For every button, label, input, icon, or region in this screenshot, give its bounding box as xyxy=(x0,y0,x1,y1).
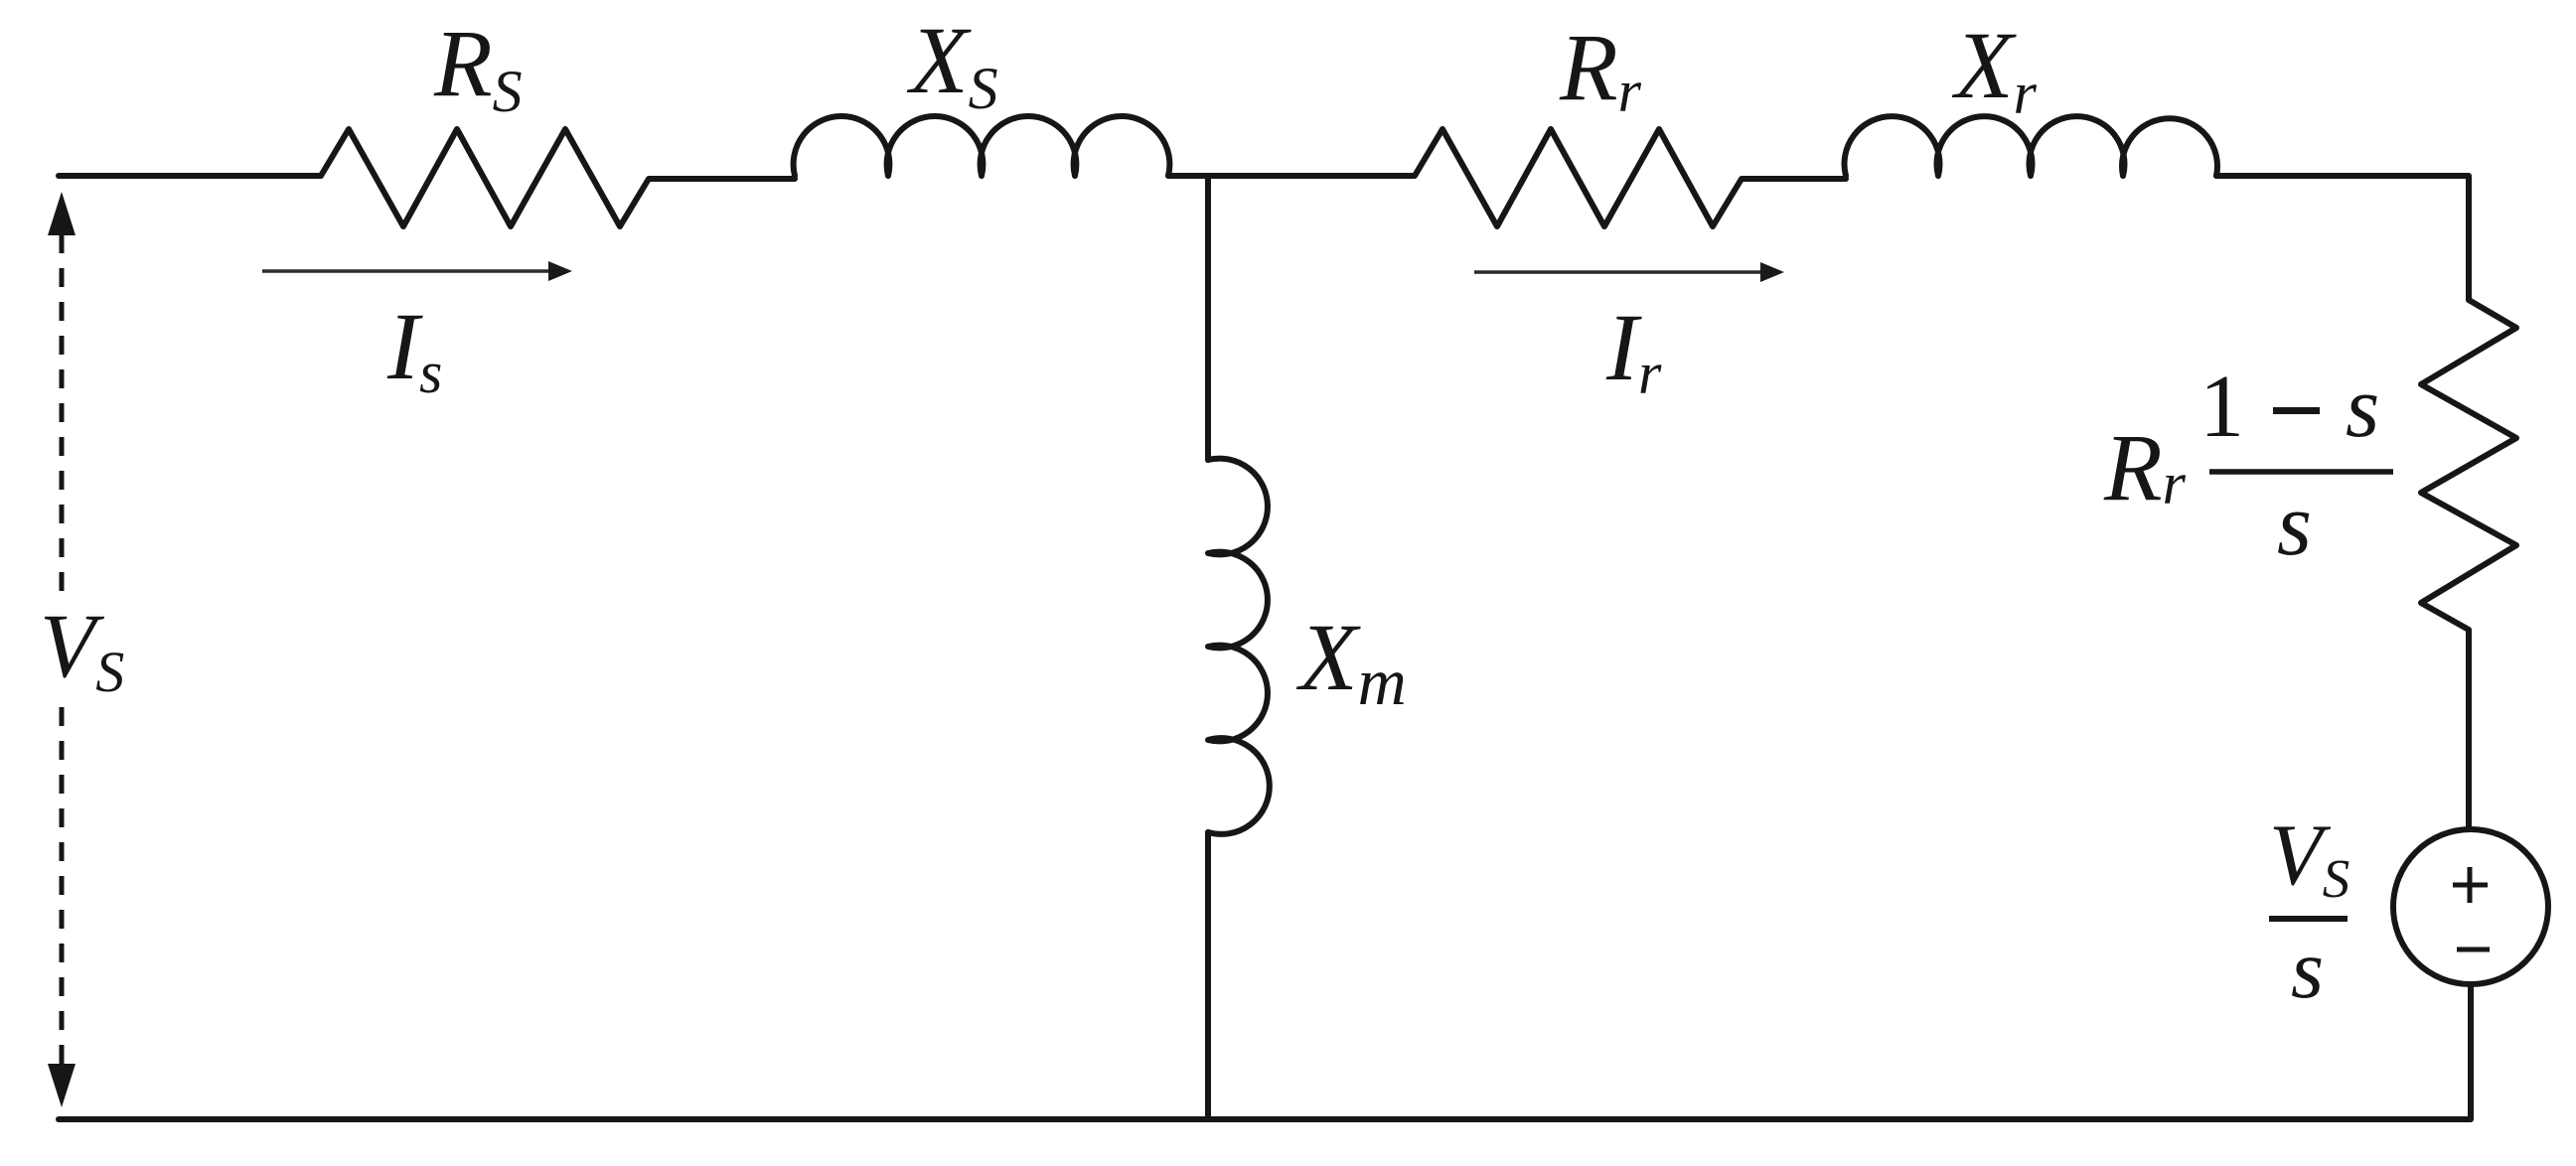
svg-text:s: s xyxy=(2346,360,2379,456)
svg-text:s: s xyxy=(2291,923,2324,1016)
svg-text:s: s xyxy=(2277,476,2312,574)
svg-text:XS: XS xyxy=(906,7,998,121)
svg-text:Rr: Rr xyxy=(2103,414,2187,520)
svg-text:VS: VS xyxy=(2269,807,2349,909)
svg-text:Ir: Ir xyxy=(1605,294,1662,406)
svg-text:Xm: Xm xyxy=(1295,604,1407,719)
svg-text:Xr: Xr xyxy=(1951,12,2038,126)
svg-text:1: 1 xyxy=(2199,358,2244,456)
svg-text:Is: Is xyxy=(386,293,442,405)
svg-text:Rr: Rr xyxy=(1559,14,1642,124)
svg-text:RS: RS xyxy=(433,10,523,124)
